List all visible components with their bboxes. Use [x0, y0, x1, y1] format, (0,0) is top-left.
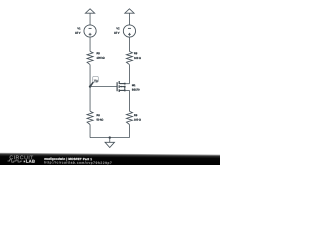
- wire R9 to bottom rail: [128, 125, 130, 138]
- power arrow node above V1: [85, 9, 94, 25]
- wire R5 to gate junction: [89, 65, 91, 87]
- footer url: [44, 161, 111, 165]
- resistor R8: [126, 51, 132, 64]
- value 15 V of V2: [114, 32, 119, 34]
- ground stub: [109, 138, 111, 143]
- mosfet M1 channel segments: [118, 81, 120, 92]
- wire gate junction to mosfet gate: [90, 86, 116, 88]
- footer title: [44, 158, 91, 161]
- value 100 kOhm of R5: [97, 57, 105, 59]
- junction dot at ground node: [109, 136, 111, 138]
- voltage source V2: [123, 25, 135, 37]
- mosfet M1 source lead: [119, 89, 129, 91]
- value 100 Ohm of R9: [134, 119, 141, 121]
- mosfet M1 body stub with arrow: [120, 86, 125, 91]
- CircuitLab logo wave arrow mark: [24, 161, 26, 163]
- wire source to R9: [128, 90, 130, 111]
- probe box Vg: [93, 76, 99, 82]
- label R9: [134, 114, 137, 116]
- mosfet M1 pin end dots: [124, 83, 126, 91]
- wire gate junction to R6: [89, 87, 91, 112]
- power arrow node above V2: [125, 9, 134, 25]
- probe flag pole Vg: [90, 82, 93, 87]
- label R8: [134, 52, 137, 54]
- bottom rail wire: [90, 137, 129, 139]
- junction dot at gate node: [89, 85, 91, 87]
- wire V2 to R8: [128, 37, 130, 51]
- voltage source V1: [84, 25, 96, 37]
- ground symbol: [105, 142, 114, 147]
- label M1: [132, 84, 135, 86]
- mosfet M1 drain lead: [119, 83, 129, 85]
- label V1: [77, 28, 80, 30]
- resistor R5: [87, 51, 93, 64]
- CircuitLab logo waveform squiggle: [8, 160, 23, 162]
- part number BS170 of M1: [132, 89, 139, 91]
- value 100 Ohm of R8: [134, 57, 141, 59]
- label R5: [97, 52, 100, 54]
- label V2: [116, 27, 119, 29]
- wire R6 to bottom rail: [89, 125, 91, 138]
- resistor R9: [126, 111, 132, 124]
- probe label Vg: [94, 79, 98, 82]
- label R6: [97, 114, 100, 116]
- CircuitLab logo word LAB: [26, 160, 35, 163]
- wire R8 to drain: [128, 65, 130, 84]
- value 50 kOhm of R6: [97, 119, 104, 121]
- CircuitLab logo word CIRCUIT: [10, 155, 34, 159]
- resistor R6: [87, 111, 93, 124]
- value 15 V of V1: [75, 32, 80, 34]
- wire V1 to R5: [89, 37, 91, 51]
- mosfet M1 gate bar: [116, 82, 118, 91]
